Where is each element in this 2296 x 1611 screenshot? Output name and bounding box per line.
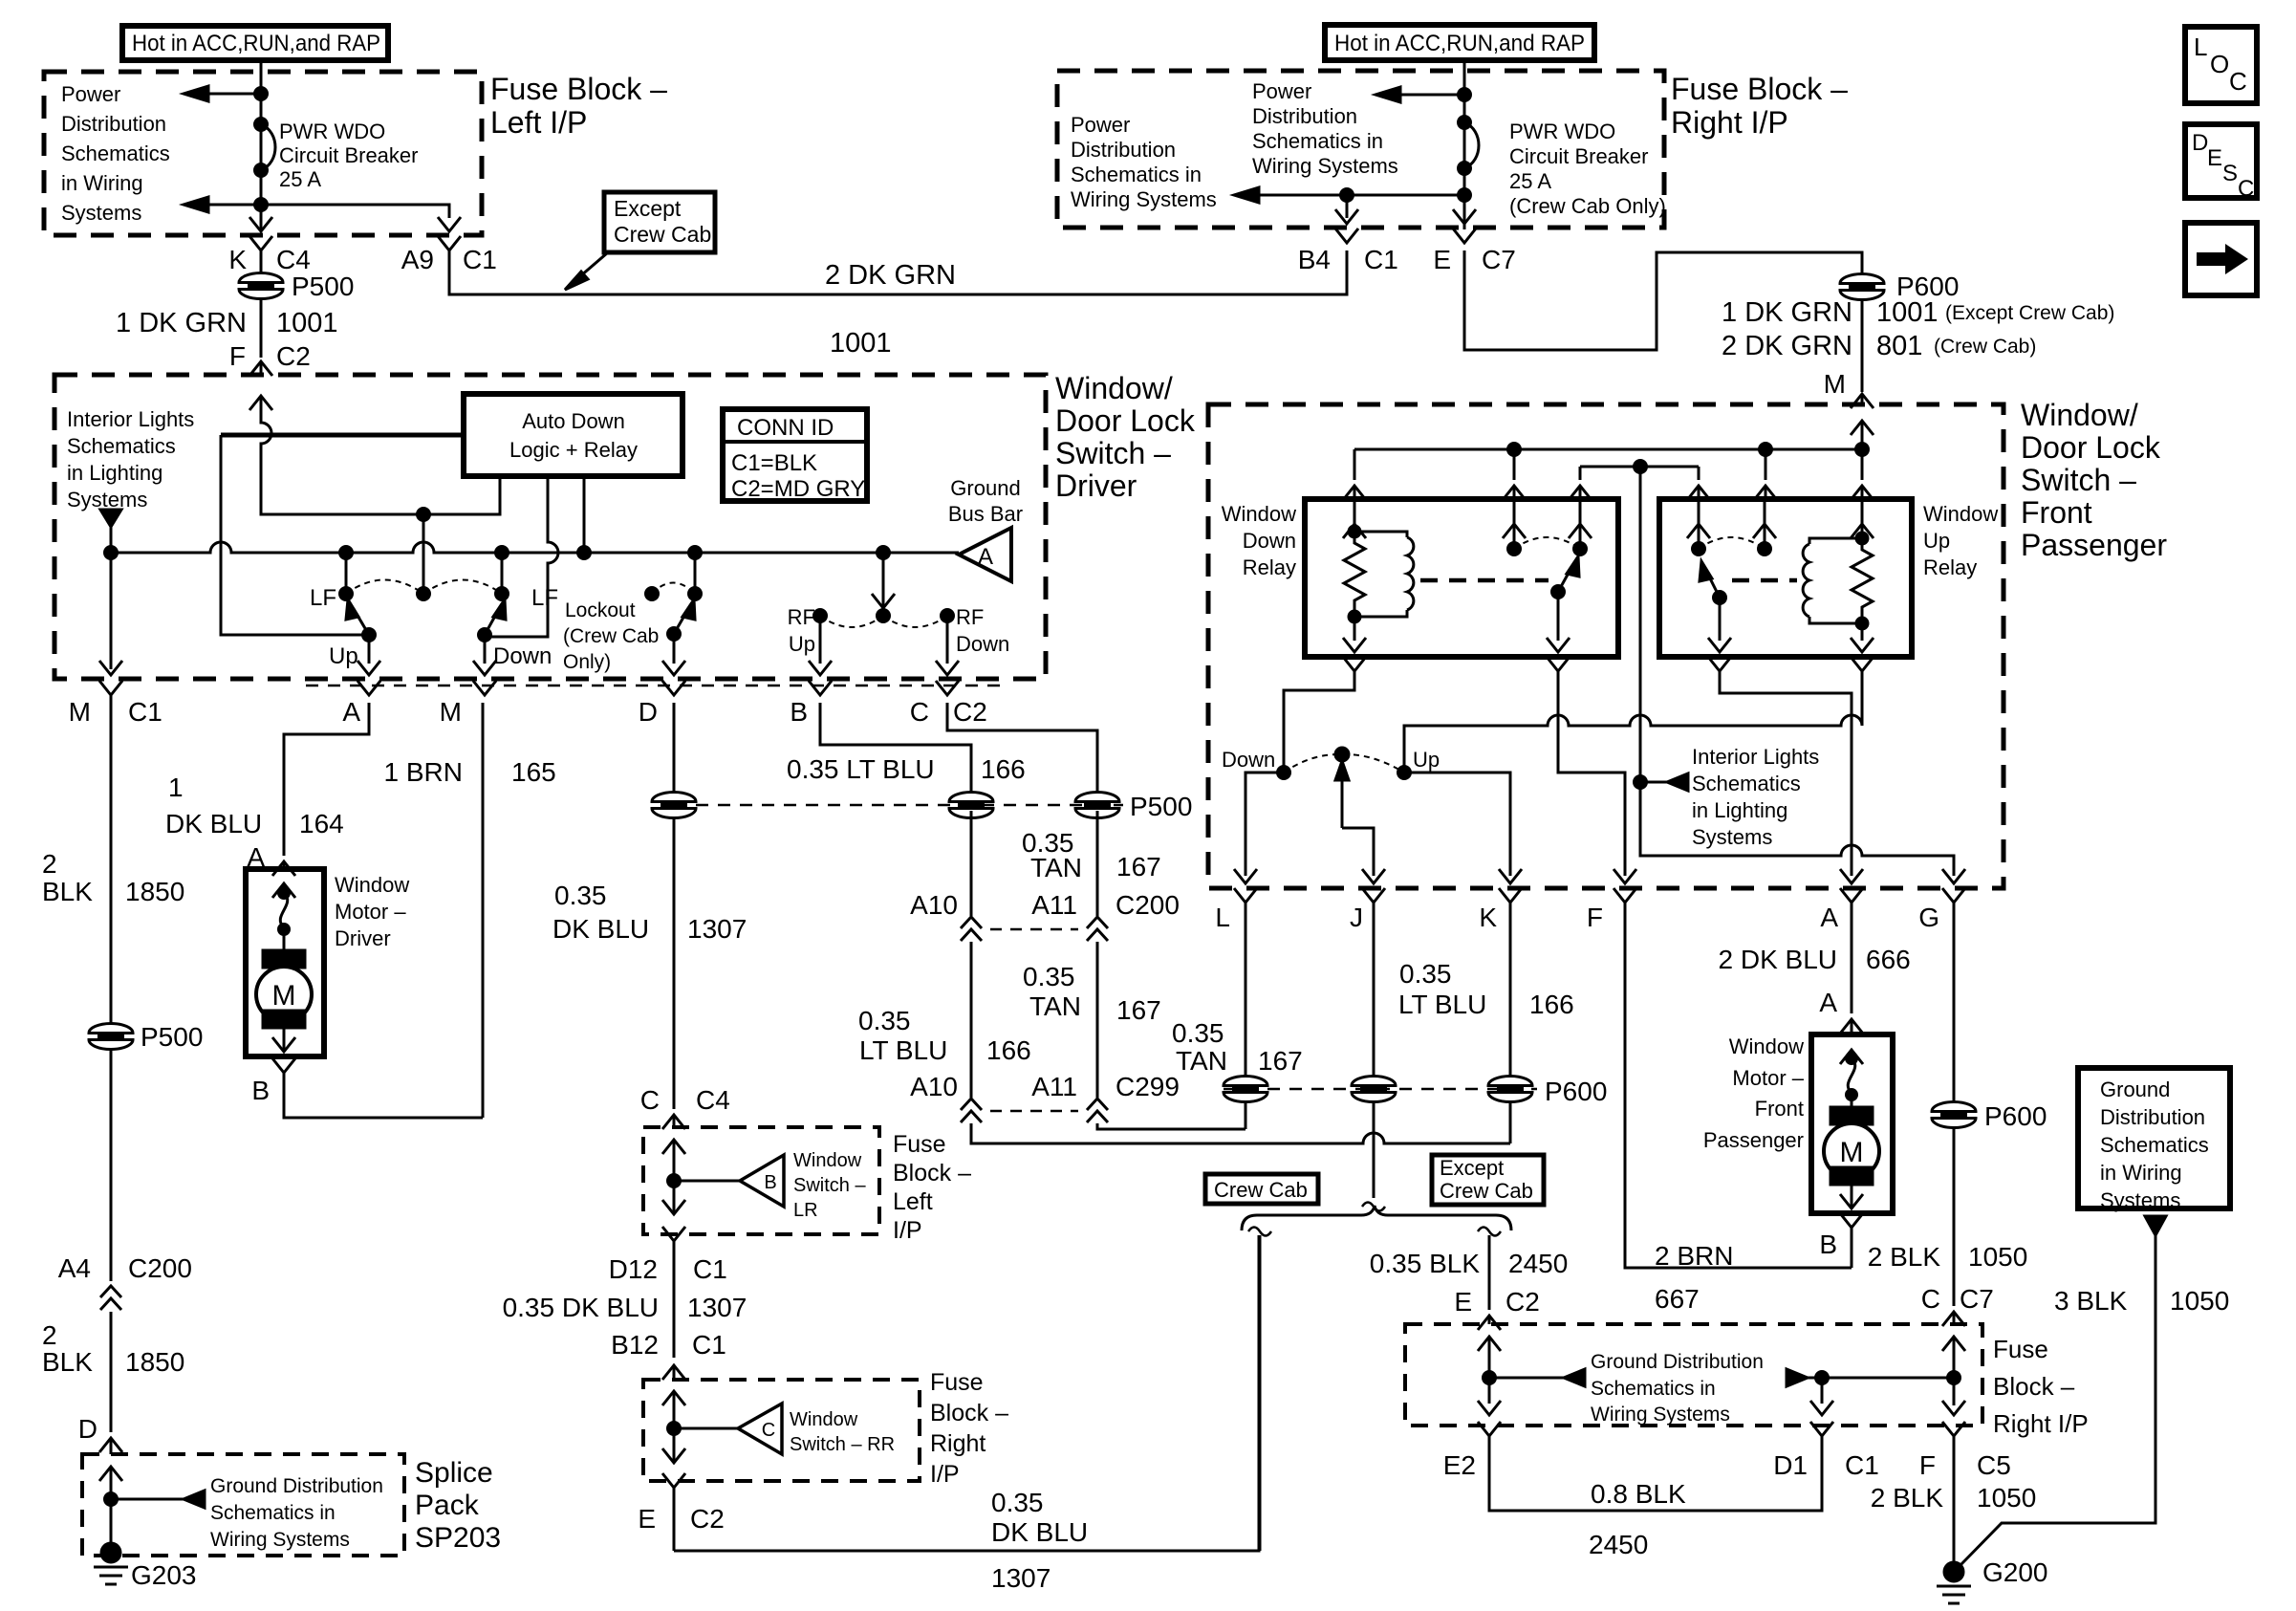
svg-text:A11: A11 xyxy=(1031,890,1077,920)
wire label: 1 BRN 165 xyxy=(384,757,556,787)
svg-text:Left I/P: Left I/P xyxy=(490,105,587,140)
wire: E2 to D1 (0.8 BLK 2450) xyxy=(1489,1444,1822,1511)
svg-text:3 BLK: 3 BLK xyxy=(2054,1286,2128,1316)
svg-text:Schematics: Schematics xyxy=(1692,772,1801,795)
svg-text:Motor –: Motor – xyxy=(335,900,406,924)
svg-text:1001: 1001 xyxy=(830,328,892,359)
wire: C200 to D pin xyxy=(110,1312,113,1432)
up relay: coil (parallel, left) xyxy=(1803,538,1862,623)
svg-text:Ground Distribution: Ground Distribution xyxy=(210,1475,383,1497)
label: Window/Door Lock Switch - Driver xyxy=(1055,371,1196,503)
svg-text:TAN: TAN xyxy=(1030,853,1082,882)
svg-text:M: M xyxy=(69,697,91,727)
label: Fuse Block - Left I/P xyxy=(893,1131,971,1244)
svg-text:0.35: 0.35 xyxy=(1023,962,1075,991)
label: Splice Pack SP203 xyxy=(415,1457,501,1554)
svg-text:Driver: Driver xyxy=(335,926,391,950)
label: Window Switch - RR xyxy=(790,1409,895,1455)
up relay: contact left xyxy=(1687,499,1710,555)
svg-text:in Wiring: in Wiring xyxy=(2100,1161,2182,1185)
svg-text:(Crew Cab Only): (Crew Cab Only) xyxy=(1509,194,1666,218)
svg-text:1307: 1307 xyxy=(687,914,747,944)
wire: bus/M to up relay coil pin xyxy=(1851,449,1874,500)
svg-text:Schematics in: Schematics in xyxy=(1071,163,1202,186)
svg-text:M: M xyxy=(440,697,462,727)
svg-text:F: F xyxy=(1587,903,1603,932)
arrow into E inside box xyxy=(1478,1337,1501,1378)
svg-text:K: K xyxy=(228,245,247,274)
svg-text:Schematics: Schematics xyxy=(2100,1133,2209,1157)
svg-text:2: 2 xyxy=(42,1320,57,1350)
up relay: coil bottom node xyxy=(1851,618,1874,652)
component box: Window Motor - Front Passenger xyxy=(1811,1034,1893,1213)
wire: E/C7 to P600 to M xyxy=(1464,250,1862,350)
junction at C7 column xyxy=(1948,1372,1960,1384)
svg-text:Passenger: Passenger xyxy=(1703,1128,1804,1152)
reference triangle pointing right toward D1/C7 node xyxy=(1787,1369,1954,1386)
lockout dashed arc xyxy=(652,583,695,595)
wire label: 0.35 BLK 2450 xyxy=(1370,1249,1569,1278)
wire: auto down right pin to bus xyxy=(583,476,586,553)
svg-text:Interior Lights: Interior Lights xyxy=(1692,745,1819,769)
wire: thick feed into auto down box (left side) xyxy=(221,433,464,438)
svg-text:S: S xyxy=(2222,161,2238,186)
junction: bus left end xyxy=(105,547,118,559)
connector pin J xyxy=(1350,888,1385,932)
svg-text:Front: Front xyxy=(1755,1097,1804,1121)
pass-through grommet P600 (J wire) xyxy=(1352,1077,1396,1102)
junction: bus at M feed xyxy=(1856,444,1869,456)
value label: PWR WDO Circuit Breaker 25 A xyxy=(279,120,418,191)
label: Lockout (Crew Cab Only) xyxy=(563,599,659,673)
wire label: 0.35 LT BLU 166 xyxy=(787,754,1026,784)
ground G200 xyxy=(1937,1557,2048,1603)
svg-text:LT BLU: LT BLU xyxy=(859,1035,947,1065)
svg-text:E: E xyxy=(1454,1287,1472,1317)
svg-text:L: L xyxy=(2194,33,2207,61)
arrow out of fuse block at A9 xyxy=(438,217,461,231)
reference: Ground Distribution Schematics in Wiring Systems (splice) xyxy=(111,1475,383,1551)
component box: Window Down Relay xyxy=(1305,499,1618,657)
svg-text:C: C xyxy=(910,697,929,727)
wire: G pin down through P600 xyxy=(1953,910,1956,1306)
pass-through grommet P600 (K wire) xyxy=(1488,1077,1532,1102)
svg-text:1050: 1050 xyxy=(1977,1483,2036,1513)
down relay: resistor xyxy=(1344,532,1365,617)
wire: A pin down to motor xyxy=(1851,910,1853,1013)
svg-text:Power: Power xyxy=(1252,79,1311,103)
svg-text:Hot in ACC,RUN,and RAP: Hot in ACC,RUN,and RAP xyxy=(1334,31,1585,56)
svg-text:P600: P600 xyxy=(1545,1077,1607,1106)
svg-text:Power: Power xyxy=(61,82,120,106)
junction xyxy=(255,199,268,211)
wire label: 2 BLK 1050 (bottom) xyxy=(1871,1483,2037,1513)
wire label: 0.35 LT BLU 166 (K column) xyxy=(1398,959,1574,1019)
wire: A pin to window motor driver xyxy=(284,703,369,856)
svg-text:0.35 LT BLU: 0.35 LT BLU xyxy=(787,754,935,784)
pass-through grommet P500 (B wire) xyxy=(949,793,993,818)
svg-text:E: E xyxy=(1433,245,1451,274)
FP switch actuator arrow from J xyxy=(1335,761,1374,876)
svg-text:Driver: Driver xyxy=(1055,468,1137,503)
svg-text:D: D xyxy=(2192,130,2208,156)
svg-text:Power: Power xyxy=(1071,113,1130,137)
wire break symbol on J xyxy=(1362,1203,1385,1211)
connector pin B4 / C1 xyxy=(1298,229,1398,274)
RF dashed arc left xyxy=(820,616,883,627)
svg-text:A: A xyxy=(1819,988,1837,1017)
svg-text:25 A: 25 A xyxy=(1509,169,1551,193)
svg-text:Fuse: Fuse xyxy=(893,1131,946,1158)
svg-text:Schematics in: Schematics in xyxy=(1591,1378,1716,1400)
svg-text:RF: RF xyxy=(956,605,984,629)
svg-text:F: F xyxy=(229,341,246,371)
motor driver: internals xyxy=(256,883,312,1052)
wire: Down contact to L pin xyxy=(1245,773,1284,876)
wire: arrow to power distribution (lower right) xyxy=(1234,187,1464,203)
svg-text:(Except Crew Cab): (Except Crew Cab) xyxy=(1945,302,2114,324)
svg-text:C4: C4 xyxy=(696,1085,730,1115)
RF down contact xyxy=(942,610,954,622)
svg-text:C299: C299 xyxy=(1116,1072,1180,1101)
svg-text:C4: C4 xyxy=(276,245,311,274)
svg-text:C2: C2 xyxy=(690,1504,725,1534)
wire label: 2 BRN 667 xyxy=(1655,1241,1733,1314)
connector pin D (splice pack) xyxy=(78,1414,122,1454)
lockout switch: contact from bus xyxy=(689,553,702,600)
svg-text:M: M xyxy=(1824,369,1846,399)
svg-text:666: 666 xyxy=(1866,945,1911,974)
svg-text:G203: G203 xyxy=(131,1560,197,1590)
svg-text:Ground: Ground xyxy=(2100,1078,2170,1101)
wire: C wire C200 to C299 xyxy=(1096,942,1099,1098)
wire: interior lights feed down to bus xyxy=(110,527,113,553)
connector pin L xyxy=(1215,888,1257,932)
svg-text:C: C xyxy=(640,1085,660,1115)
connector pin M / C1 (driver ground) xyxy=(69,681,162,727)
reference: interior lights schematics (FP) xyxy=(1640,745,1819,849)
connector pin M (down output) xyxy=(440,681,496,727)
legend box: arrow xyxy=(2185,223,2257,295)
svg-text:P500: P500 xyxy=(292,272,354,301)
value label: PWR WDO Circuit Breaker 25 A (Crew Cab Only) xyxy=(1509,120,1666,218)
svg-text:Front: Front xyxy=(2021,495,2092,530)
wire: F/C5 down to G200 (2 BLK 1050) xyxy=(1953,1444,1956,1562)
svg-text:Pack: Pack xyxy=(415,1490,480,1521)
component box: fuse block right ground distribution (dashed) xyxy=(1405,1324,1982,1426)
junction: bus at auto down pin xyxy=(578,547,591,559)
RR switch internals: arrow in, node, triangle C, arrow out xyxy=(662,1391,782,1463)
arrow into splice pack xyxy=(99,1467,122,1499)
label box: Except Crew Cab xyxy=(1432,1155,1544,1205)
wire: bus to down relay left contact pin xyxy=(1503,449,1526,500)
wire label: 0.35 TAN 167 (below C200) xyxy=(1023,962,1161,1025)
wire: down relay arm out to F pin xyxy=(1547,657,1625,876)
wire: C pin (0.35 TAN 167) down and over xyxy=(947,703,1097,799)
wire label: 0.35 DK BLU (bottom) xyxy=(991,1488,1088,1547)
wire label: 1 DK GRN 1001 xyxy=(116,308,338,338)
wire: B grommet to C200 xyxy=(970,811,973,916)
connector pin A11 / C200 xyxy=(1031,890,1180,941)
svg-text:C1: C1 xyxy=(1845,1450,1879,1480)
pass-through grommet P500 (D wire) xyxy=(652,793,696,818)
label: Window Up Relay xyxy=(1923,502,1998,579)
svg-text:A: A xyxy=(342,697,360,727)
ground G203 xyxy=(94,1543,197,1590)
wire: LT BLU 166 run from B wire to K pin xyxy=(971,1123,1510,1143)
component box: window switch RR (fuse block right, dashed) xyxy=(643,1380,920,1481)
junction: control line to G feed xyxy=(1635,461,1647,473)
svg-text:C200: C200 xyxy=(1116,890,1180,920)
junction at D1 xyxy=(1816,1372,1829,1384)
wire label: 2 DK GRN 801 (Crew Cab) xyxy=(1722,331,2036,361)
svg-text:1001: 1001 xyxy=(276,308,338,338)
connector pin A (FP motor) xyxy=(1819,988,1863,1034)
svg-text:0.35: 0.35 xyxy=(858,1006,911,1035)
wire: Up contact to K pin xyxy=(1404,773,1510,876)
control line between relays xyxy=(1580,466,1699,468)
FP switch dashed arcs with apex xyxy=(1284,748,1404,773)
svg-text:M: M xyxy=(272,980,296,1012)
connector C299 dashed tie xyxy=(990,1110,1078,1113)
svg-text:Block –: Block – xyxy=(930,1400,1008,1426)
wire: RF down output to C pin xyxy=(936,616,959,675)
svg-text:Fuse Block –: Fuse Block – xyxy=(1671,72,1848,106)
down relay: contact left xyxy=(1503,499,1526,555)
svg-text:C2: C2 xyxy=(1505,1287,1540,1317)
wire: C grommet to C200 xyxy=(1096,811,1099,916)
svg-text:B12: B12 xyxy=(611,1330,659,1360)
svg-text:D: D xyxy=(78,1414,97,1444)
label: RF Up xyxy=(788,605,815,656)
svg-text:Window: Window xyxy=(790,1409,858,1430)
svg-text:1850: 1850 xyxy=(125,877,184,906)
connector pin A (motor) xyxy=(247,842,295,876)
FP motor internals xyxy=(1824,1050,1879,1208)
reference: ground distribution schematics (left) xyxy=(1489,1351,1764,1426)
up relay: resistor xyxy=(1852,538,1873,623)
pass-through grommet P600 (G wire) xyxy=(1932,1101,2047,1131)
label box: Hot in ACC,RUN,and RAP (left) xyxy=(122,26,388,60)
wire label: 2 BLK 1050 (G column) xyxy=(1868,1242,2028,1272)
svg-text:M: M xyxy=(1840,1137,1864,1168)
svg-text:667: 667 xyxy=(1655,1284,1700,1314)
wire: up output to A pin xyxy=(357,635,380,675)
connector pin E / C2 (RR out) xyxy=(638,1473,724,1551)
svg-text:C: C xyxy=(762,1420,775,1441)
svg-text:164: 164 xyxy=(299,809,344,838)
junction xyxy=(1459,189,1471,202)
svg-text:C1: C1 xyxy=(1364,245,1398,274)
svg-text:G: G xyxy=(1918,903,1939,932)
svg-text:Logic + Relay: Logic + Relay xyxy=(509,438,638,462)
svg-text:LF: LF xyxy=(310,585,336,611)
connector pin D (lockout output) xyxy=(639,681,685,727)
svg-text:B: B xyxy=(764,1172,776,1193)
wire: up relay arm out to A pin xyxy=(1708,657,1852,876)
svg-text:C: C xyxy=(2229,67,2247,96)
wire label: 2 BLK 1850 (upper) xyxy=(42,849,184,906)
up relay: switch arm xyxy=(1700,561,1726,604)
arrow into M inside FP box xyxy=(1851,421,1874,449)
svg-text:C7: C7 xyxy=(1482,245,1516,274)
svg-text:A11: A11 xyxy=(1031,1072,1077,1101)
svg-text:PWR WDO: PWR WDO xyxy=(279,120,385,143)
up relay: arm output xyxy=(1708,598,1731,652)
wire: crew cab branch down xyxy=(1259,1235,1262,1551)
svg-text:Systems: Systems xyxy=(1692,825,1772,849)
svg-text:Window: Window xyxy=(793,1150,862,1171)
down relay: dashed contact arc xyxy=(1514,537,1580,549)
svg-text:(Crew Cab): (Crew Cab) xyxy=(1934,336,2036,358)
svg-text:P500: P500 xyxy=(141,1022,203,1052)
wire: branch to A9 xyxy=(261,205,449,218)
svg-text:0.35: 0.35 xyxy=(1399,959,1452,989)
svg-text:1307: 1307 xyxy=(687,1293,747,1322)
svg-text:2450: 2450 xyxy=(1589,1530,1648,1559)
svg-text:TAN: TAN xyxy=(1029,991,1081,1021)
svg-text:Window: Window xyxy=(1729,1034,1804,1058)
ground bus bar triangle A xyxy=(959,528,1011,581)
svg-text:C1: C1 xyxy=(463,245,497,274)
component box: window switch LR (fuse block left, dashed) xyxy=(643,1127,879,1234)
connector pin B (FP motor) xyxy=(1819,1213,1863,1268)
svg-text:1 DK GRN: 1 DK GRN xyxy=(1722,297,1852,328)
svg-text:166: 166 xyxy=(986,1035,1031,1065)
component box: Splice Pack SP203 (dashed) xyxy=(82,1454,404,1556)
junction xyxy=(1341,189,1354,202)
svg-text:Distribution: Distribution xyxy=(1252,104,1357,128)
svg-text:Systems: Systems xyxy=(61,201,141,225)
wire: auto down sense to middle contact xyxy=(418,514,430,600)
svg-text:E: E xyxy=(2207,145,2222,171)
svg-text:E2: E2 xyxy=(1443,1450,1476,1480)
connector pin A4 / C200 xyxy=(58,1253,192,1310)
svg-text:C7: C7 xyxy=(1960,1284,1994,1314)
wire: down relay coil out to Down contact xyxy=(1284,657,1366,767)
svg-text:Only): Only) xyxy=(563,651,611,673)
svg-text:Ground Distribution: Ground Distribution xyxy=(1591,1351,1764,1373)
wire label: 1 DK BLU 164 xyxy=(165,773,344,838)
down relay: coil pin entry arrow xyxy=(1343,499,1366,538)
switch arm (up) xyxy=(346,599,376,642)
RF switch: feed from bus with arrow xyxy=(872,553,895,622)
pass-through grommet P600 (M wire) xyxy=(1840,272,1959,301)
junction: bus at RF switch xyxy=(877,547,890,559)
svg-text:0.35: 0.35 xyxy=(554,881,607,910)
connector pin C / C7 (fuse block right) xyxy=(1921,1284,1994,1326)
wire: K pin down through P600 xyxy=(1509,910,1512,1143)
wire: bus to down relay coil pin xyxy=(1343,449,1366,500)
wire: M pin (1 BRN 165) down to motor B xyxy=(482,703,485,1118)
svg-text:B4: B4 xyxy=(1298,245,1331,274)
label: Fuse Block - Right I/P xyxy=(1993,1335,2089,1438)
wire: bus to up relay right contact pin xyxy=(1754,449,1777,500)
svg-text:in Lighting: in Lighting xyxy=(67,461,162,485)
wire: TAN 167 run from C wire to L pin xyxy=(1097,1123,1245,1129)
component box: Auto Down Logic + Relay xyxy=(464,394,682,476)
label: Fuse Block - Right I/P xyxy=(1671,72,1848,140)
crew cab branch break xyxy=(1248,1228,1271,1236)
up relay: contact right xyxy=(1753,499,1776,555)
svg-text:G200: G200 xyxy=(1982,1557,2048,1587)
note: Interior Lights Schematics in Lighting Systems (driver) xyxy=(67,407,194,512)
wire: arrow to power distribution (lower) xyxy=(184,197,261,212)
up relay: coil pin entry arrow xyxy=(1851,499,1874,544)
svg-text:2450: 2450 xyxy=(1508,1249,1568,1278)
junction: bus at LF down contact xyxy=(496,547,509,559)
wire label: 0.35 DK BLU 1307 (middle) xyxy=(503,1293,747,1322)
wire: K to F/C2 xyxy=(260,298,263,358)
svg-text:TAN: TAN xyxy=(1176,1046,1227,1076)
svg-text:Circuit Breaker: Circuit Breaker xyxy=(1509,144,1648,168)
svg-text:Systems: Systems xyxy=(2100,1188,2180,1212)
svg-text:Window: Window xyxy=(1222,502,1296,526)
bus wire (ground bus) across driver switch xyxy=(111,542,959,553)
svg-text:Except: Except xyxy=(1440,1156,1504,1180)
connector pin A10 (C299) xyxy=(910,1072,982,1122)
svg-text:Auto Down: Auto Down xyxy=(522,409,625,433)
arrow from Except Crew Cab box xyxy=(565,252,608,290)
connector pin A11 / C299 xyxy=(1031,1072,1180,1122)
svg-text:B: B xyxy=(790,697,808,727)
arrow out of fuse block at K xyxy=(249,217,272,231)
arrow out of fuse block at E xyxy=(1453,209,1476,224)
svg-text:0.35 BLK: 0.35 BLK xyxy=(1370,1249,1481,1278)
connector pin E / C7 xyxy=(1433,229,1515,274)
wire: M into window/door lock switch front passenger xyxy=(1861,298,1864,392)
connector pin K xyxy=(1479,888,1522,932)
wire: grommet to C200 xyxy=(110,1048,113,1281)
svg-text:Down: Down xyxy=(1222,748,1275,772)
note: Power Distribution Schematics in Wiring Systems (left) xyxy=(61,82,170,225)
down relay: coil bottom node xyxy=(1343,611,1366,652)
switch dashed arc LF right xyxy=(423,580,502,595)
connector pin D12 / C1 xyxy=(609,1227,727,1358)
label: Window Motor - Front Passenger xyxy=(1703,1034,1805,1152)
pass-through grommet P500 (K wire) xyxy=(239,272,354,301)
svg-text:A: A xyxy=(978,544,993,570)
connector pin B (motor driver) xyxy=(251,1058,483,1118)
svg-text:A9: A9 xyxy=(401,245,434,274)
label: Window Down Relay xyxy=(1222,502,1296,579)
svg-text:Switch –: Switch – xyxy=(793,1175,866,1196)
down relay: arm output xyxy=(1547,592,1570,652)
svg-text:Schematics in: Schematics in xyxy=(210,1502,336,1524)
down relay: coil (parallel) xyxy=(1354,532,1414,617)
svg-text:C1=BLK: C1=BLK xyxy=(731,450,817,476)
svg-text:Wiring Systems: Wiring Systems xyxy=(1591,1404,1730,1426)
fuse block right I/P dashed box (power distribution) xyxy=(1057,71,1664,228)
svg-text:J: J xyxy=(1350,903,1363,932)
wire label: 0.35 TAN 167 (L column) xyxy=(1172,1018,1303,1076)
svg-text:Ground: Ground xyxy=(950,476,1020,500)
selection brace (crew cab / except crew cab) xyxy=(1242,1206,1511,1230)
wire: up relay coil out to Up contact xyxy=(1404,657,1874,767)
wire: control line to down relay right contact pin xyxy=(1569,467,1592,500)
svg-text:1001: 1001 xyxy=(1876,297,1939,328)
arrow into C7 inside box xyxy=(1942,1337,1965,1405)
svg-text:LR: LR xyxy=(793,1200,818,1221)
svg-text:1307: 1307 xyxy=(991,1563,1051,1593)
connector C2 dashed line under driver switch xyxy=(306,685,1008,687)
svg-text:Right I/P: Right I/P xyxy=(1993,1409,2089,1438)
svg-text:0.8 BLK: 0.8 BLK xyxy=(1591,1479,1686,1509)
svg-text:DK BLU: DK BLU xyxy=(552,914,649,944)
svg-text:Door Lock: Door Lock xyxy=(2021,430,2161,465)
component box: Window/Door Lock Switch - Front Passenger (dashed) xyxy=(1208,404,2004,888)
switch LF up: contact stub xyxy=(340,553,353,600)
